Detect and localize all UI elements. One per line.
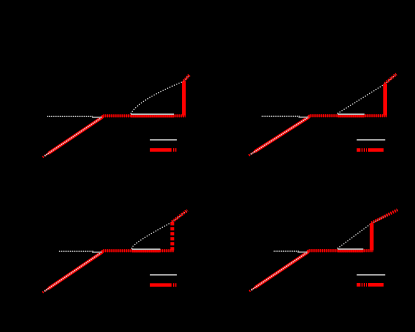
panel 4 legend: gray solid line sample: [357, 274, 386, 276]
panel 2: gray line overlay on flat segment (solid red beneath): [338, 114, 365, 116]
panel 1: gray dotted 45-degree line over rising segment: [45, 118, 101, 156]
panel 4: gray dotted indifference curve to notch point: [338, 223, 372, 248]
panel 3: gray solid short segment before kink: [92, 251, 102, 253]
panel 4: gray dotted 45-degree line over rising segment: [252, 253, 307, 290]
panel 2: rising 45-degree segment (red thick): [255, 116, 310, 152]
panel 3: red dashed continuation arrow beyond notch: [172, 210, 187, 222]
panel 2: red dashed tail of rising segment: [249, 152, 255, 156]
panel 2: gray dotted continuation beyond notch: [385, 74, 396, 84]
panel 4: red dashed continuation arrow beyond notch: [372, 210, 398, 223]
panel 2: gray dotted 45-degree line over rising segment: [251, 118, 307, 154]
panel 1: red vertical notch jump: [182, 81, 186, 115]
panel 2 legend: red dashed line sample: [357, 148, 384, 152]
panel 3: red dashed tail of rising segment: [43, 289, 49, 293]
panel 1: gray dotted horizontal marker at notch level: [48, 115, 93, 117]
panel 2: red dashed flat bunching segment: [310, 114, 387, 117]
panel 4: rising 45-degree segment (red thick): [255, 251, 309, 288]
panel 4: gray dotted horizontal marker at notch level: [274, 250, 298, 252]
panel 4: gray solid short segment before kink: [298, 251, 308, 253]
panel 3 legend: red dashed line sample: [150, 283, 177, 287]
panel 2 legend: gray solid line sample: [357, 139, 386, 141]
panel 3: rising 45-degree segment (red thick): [48, 251, 103, 289]
panel 4: gray line overlay on flat segment (solid red beneath): [338, 249, 364, 251]
panel 4: red vertical notch jump: [370, 223, 374, 250]
panel 1: gray solid short segment before kink: [92, 116, 102, 118]
panel 3: gray dotted indifference curve to notch point: [132, 222, 173, 248]
panel 3 legend: gray solid line sample: [150, 274, 177, 276]
panel 1: rising 45-degree segment (red thick): [49, 116, 104, 154]
panel 2: red dashed continuation arrow beyond notch: [385, 74, 397, 84]
panel 1: red dashed flat bunching segment: [103, 115, 185, 118]
panel 3: gray dotted continuation beyond notch: [172, 210, 187, 222]
panel 4: red dashed tail of rising segment: [249, 287, 255, 291]
panel 1 legend: red dashed line sample: [150, 148, 177, 152]
panel 2: gray dotted indifference curve to notch point: [338, 84, 385, 114]
panel 4: red dashed flat bunching segment: [309, 249, 374, 252]
panel 1: red dashed tail of rising segment: [43, 153, 49, 157]
panel 1: gray line overlay on flat segment (solid red beneath): [131, 114, 174, 116]
panel 4 legend: red dashed line sample: [357, 283, 384, 287]
panel 3: red vertical notch jump: [170, 222, 174, 250]
panel 3: gray line overlay on flat segment (solid red beneath): [132, 249, 161, 251]
panel 3: gray dotted 45-degree line over rising segment: [45, 253, 101, 291]
panel 3: red dashed flat bunching segment: [103, 249, 174, 252]
panel 4: gray dotted continuation beyond notch: [372, 210, 398, 223]
panel 2: gray dotted horizontal marker at notch level: [262, 115, 299, 117]
panel 1: gray dotted indifference curve to notch point: [131, 81, 184, 113]
panel 1: gray dotted continuation beyond notch: [184, 75, 189, 81]
panel 3: gray dotted horizontal marker at notch level: [60, 250, 94, 252]
panel 2: red vertical notch jump: [383, 84, 387, 116]
panel 2: gray solid short segment before kink: [299, 116, 309, 118]
panel 1: red dashed continuation arrow beyond notch: [184, 75, 190, 81]
panel 1 legend: gray solid line sample: [150, 139, 177, 141]
